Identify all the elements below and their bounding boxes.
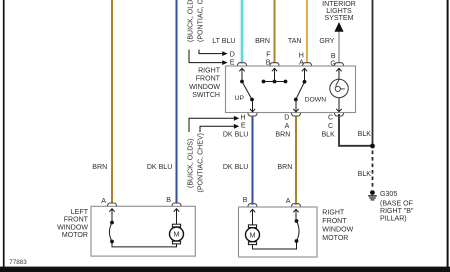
svg-text:RIGHT "B": RIGHT "B" — [380, 208, 414, 215]
svg-text:B: B — [331, 53, 336, 60]
svg-text:BLK: BLK — [358, 171, 372, 178]
svg-text:A: A — [299, 60, 304, 67]
svg-text:A: A — [286, 198, 291, 205]
svg-text:FRONT: FRONT — [322, 218, 347, 225]
svg-text:WINDOW: WINDOW — [322, 226, 353, 233]
svg-text:PILLAR): PILLAR) — [380, 215, 407, 222]
svg-text:B: B — [266, 60, 271, 67]
svg-text:(BASE OF: (BASE OF — [380, 201, 414, 208]
svg-text:MOTOR: MOTOR — [322, 235, 348, 242]
svg-text:BRN: BRN — [92, 164, 107, 171]
svg-text:LEFT: LEFT — [71, 209, 89, 216]
svg-text:BRN: BRN — [275, 131, 290, 138]
svg-text:H: H — [241, 115, 246, 122]
svg-text:BRN: BRN — [277, 164, 292, 171]
svg-text:WINDOW: WINDOW — [57, 224, 88, 231]
svg-text:A: A — [285, 123, 290, 130]
svg-text:BRN: BRN — [255, 38, 270, 45]
svg-text:TAN: TAN — [288, 38, 302, 45]
svg-text:C: C — [328, 123, 333, 130]
svg-text:WINDOW: WINDOW — [189, 84, 220, 91]
svg-text:DOWN: DOWN — [305, 96, 327, 103]
svg-text:M: M — [250, 230, 256, 239]
svg-text:D: D — [230, 51, 235, 58]
svg-text:H: H — [299, 52, 304, 59]
svg-text:D: D — [284, 114, 289, 121]
svg-text:E: E — [230, 60, 235, 67]
svg-text:GRY: GRY — [319, 38, 334, 45]
svg-text:DK BLU: DK BLU — [147, 164, 172, 171]
svg-text:DK BLU: DK BLU — [223, 131, 248, 138]
svg-text:E: E — [241, 123, 246, 130]
svg-text:A: A — [101, 198, 106, 205]
svg-text:G: G — [330, 60, 335, 67]
svg-text:FRONT: FRONT — [196, 76, 221, 83]
svg-text:G305: G305 — [380, 191, 397, 198]
svg-text:(BUICK, OLDS): (BUICK, OLDS) — [187, 139, 194, 188]
svg-text:RIGHT: RIGHT — [198, 67, 221, 74]
svg-text:SWITCH: SWITCH — [192, 92, 220, 99]
svg-text:B: B — [243, 197, 248, 204]
svg-text:LT BLU: LT BLU — [212, 38, 235, 45]
svg-text:BLK: BLK — [321, 132, 335, 139]
svg-text:SYSTEM: SYSTEM — [325, 15, 354, 22]
svg-text:MOTOR: MOTOR — [62, 232, 88, 239]
svg-text:BLK: BLK — [358, 131, 372, 138]
svg-text:77883: 77883 — [9, 259, 27, 266]
svg-text:C: C — [328, 114, 333, 121]
svg-text:F: F — [266, 51, 271, 58]
svg-text:UP: UP — [235, 95, 245, 102]
svg-text:FRONT: FRONT — [64, 217, 89, 224]
svg-text:RIGHT: RIGHT — [322, 209, 345, 216]
svg-text:(BUICK, OLDS): (BUICK, OLDS) — [187, 0, 194, 42]
svg-text:M: M — [174, 230, 180, 239]
svg-text:B: B — [166, 197, 171, 204]
svg-text:(PONTIAC, CHEV): (PONTIAC, CHEV) — [197, 0, 204, 42]
svg-text:DK BLU: DK BLU — [223, 164, 248, 171]
svg-text:(PONTIAC, CHEV): (PONTIAC, CHEV) — [197, 133, 204, 193]
